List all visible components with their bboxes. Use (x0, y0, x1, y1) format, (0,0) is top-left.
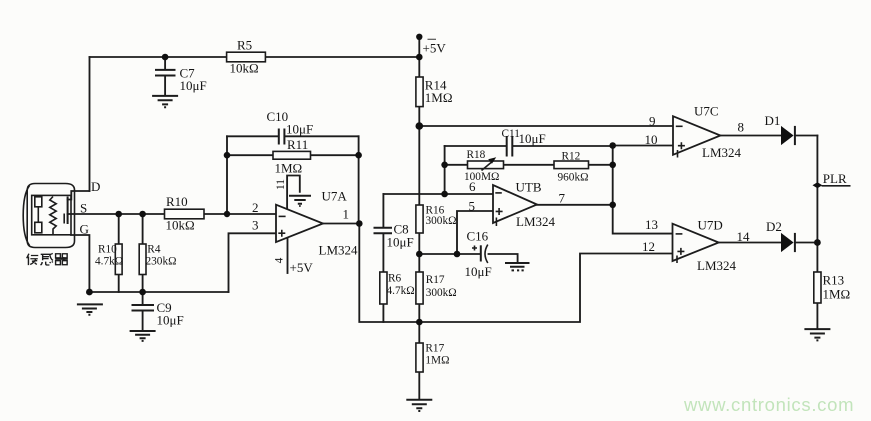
resistor R12 960k body (554, 161, 589, 169)
wire: U7A pin 11 lead to ground (287, 176, 300, 211)
svg-text:10μF: 10μF (519, 131, 546, 146)
wire: R4 leads (142, 214, 144, 292)
wire: central vertical R14-R16-R17-R17 chain (418, 57, 420, 400)
svg-text:D: D (91, 179, 100, 194)
pin label 13 (645, 217, 658, 232)
svg-text:10kΩ: 10kΩ (230, 61, 259, 76)
svg-text:R11: R11 (287, 137, 308, 152)
svg-text:C11: C11 (502, 128, 520, 140)
ground under C7 (152, 96, 178, 107)
label UTB (516, 180, 556, 230)
resistor R10 4.7k vertical body (115, 244, 122, 275)
diode D2 (781, 233, 795, 252)
ground right of C16 (505, 263, 530, 270)
pin label 4 rotated (274, 257, 286, 263)
pin label 11 rotated (275, 179, 287, 190)
svg-text:300kΩ: 300kΩ (426, 215, 457, 227)
node junction U7A output (356, 220, 363, 227)
svg-text:D1: D1 (765, 113, 781, 128)
ground under sensor node (77, 304, 103, 314)
svg-text:1: 1 (343, 207, 350, 222)
ground under R17 1M (406, 400, 432, 411)
pin label 1 (343, 207, 350, 222)
node junction R4 / C9 (139, 289, 146, 296)
svg-text:300kΩ: 300kΩ (426, 287, 457, 299)
sensor FET channel and gate (64, 197, 67, 225)
capacitor C8 plates (374, 228, 393, 233)
svg-text:www.cntronics.com: www.cntronics.com (683, 394, 854, 415)
svg-text:R17: R17 (425, 343, 444, 355)
wire: U7A output drop to bottom bus and up to U7D pin 12 (359, 224, 672, 323)
node junction R11 right (355, 152, 362, 159)
svg-text:R6: R6 (388, 273, 402, 285)
pin label 9 (649, 114, 656, 129)
capacitor C16 plates polarized (472, 245, 488, 263)
ground at U7A pin 11 (289, 196, 311, 206)
op-amp U7A triangle (276, 205, 323, 242)
svg-text:C10: C10 (267, 109, 289, 124)
resistor R4 230k body (139, 244, 146, 275)
svg-text:PLR: PLR (823, 171, 847, 186)
svg-text:UTB: UTB (516, 180, 542, 195)
svg-text:LM324: LM324 (516, 214, 556, 229)
label R10 10k horizontal (166, 194, 195, 233)
wire: C10 feedback wire (227, 135, 359, 137)
svg-text:R18: R18 (467, 149, 486, 161)
svg-text:R10: R10 (98, 244, 117, 256)
svg-text:R17: R17 (426, 274, 445, 286)
label PLR (823, 171, 847, 186)
wire: sensor S lead to U7A pin 2 (68, 213, 276, 215)
wire: U7D output to D2 (719, 242, 818, 244)
resistor R18 100M body with trimmer arrow (468, 157, 504, 170)
node junction C7 on +5V rail (162, 54, 169, 61)
wire: R11 feedback wire (227, 154, 359, 156)
label sensor S (80, 201, 87, 216)
label R16 (426, 205, 457, 228)
label R11 (275, 137, 309, 176)
wire: R18 R12 wire (445, 164, 613, 166)
node junction +5V rail / R14 (416, 54, 423, 61)
capacitor C7 plates (155, 70, 176, 76)
svg-text:100MΩ: 100MΩ (464, 171, 499, 183)
svg-text:C16: C16 (467, 229, 489, 244)
wire: sensor G lead down to ground node (71, 235, 89, 292)
node junction R11 left (224, 152, 231, 159)
label U7A (319, 189, 359, 258)
node junction pin5 riser / C16 (454, 251, 461, 258)
resistor R5 10k body (227, 52, 266, 62)
pin label 6 (469, 179, 476, 194)
pin label 14 (737, 229, 751, 244)
svg-text:13: 13 (645, 217, 658, 232)
resistor R6 4.7k body (380, 272, 387, 304)
svg-text:4.7kΩ: 4.7kΩ (387, 285, 415, 297)
wire: U7A pin 3 riser from bottom-left node (229, 233, 277, 292)
diode D1 (781, 126, 795, 145)
svg-text:2: 2 (252, 200, 259, 215)
pin label 7 (559, 191, 566, 206)
node PLR underline (822, 185, 851, 187)
svg-text:10μF: 10μF (387, 235, 414, 250)
svg-text:960kΩ: 960kΩ (558, 172, 589, 184)
node junction pin6 wire / riser (441, 191, 448, 198)
wire: sensor D lead to left vertical (68, 191, 90, 200)
svg-text:R12: R12 (562, 151, 581, 163)
node junction pin7 / right rail (609, 202, 616, 209)
wire: C7 leads (164, 57, 166, 96)
label U7C (694, 104, 742, 161)
wire: U7C pin 10 wire (613, 145, 673, 147)
svg-text:1MΩ: 1MΩ (425, 355, 449, 367)
svg-text:U7A: U7A (322, 189, 348, 204)
node PLR junction dot (813, 182, 823, 188)
wire: top +5V rail from left vertical to +5V node (90, 56, 420, 58)
wire: +5V stub (418, 37, 420, 57)
svg-text:S: S (80, 201, 87, 216)
svg-text:9: 9 (649, 114, 656, 129)
+5V power tick at top (428, 38, 437, 40)
svg-text:10μF: 10μF (286, 122, 313, 137)
svg-text:10μF: 10μF (157, 313, 184, 328)
wire: UTB pin 6 wire (383, 193, 493, 195)
wire: U7C pin 9 long wire (419, 125, 673, 127)
sensor inner window (32, 195, 71, 234)
svg-text:7: 7 (559, 191, 566, 206)
sensor gate resistor zigzag (50, 197, 56, 235)
node junction R18 wire / riser (441, 162, 448, 169)
label C16 (465, 229, 492, 280)
label C7 (180, 66, 207, 94)
wire: U7C output to D1 and PLR rail (720, 135, 817, 137)
resistor R10 10k horizontal body (165, 209, 205, 219)
wire: feedback left rail at U7A pin 2 (226, 136, 228, 214)
label C8 (387, 222, 414, 250)
svg-text:1MΩ: 1MΩ (275, 161, 303, 176)
label sensor G (80, 222, 89, 237)
wire: bottom-left node joining R10 R4 C9 (89, 291, 228, 293)
sensor element electrodes (35, 197, 42, 233)
label D1 (765, 113, 781, 128)
label R10 4.7k (95, 244, 123, 268)
svg-text:U7C: U7C (694, 104, 719, 119)
svg-text:10μF: 10μF (180, 78, 207, 93)
op-amp U7C triangle (673, 116, 720, 157)
svg-text:5: 5 (469, 199, 476, 214)
wire: far right rail D1 to R13 (816, 136, 818, 329)
wire: branch riser to C11/R18 (444, 146, 446, 194)
node junction ground bus left (86, 289, 93, 296)
label C10 (267, 109, 314, 137)
svg-text:10μF: 10μF (465, 264, 492, 279)
svg-text:LM324: LM324 (319, 243, 359, 258)
svg-text:U7D: U7D (698, 218, 723, 233)
node junction D2 / R13 (814, 239, 821, 246)
node +5V terminal dot (416, 34, 422, 40)
svg-text:R4: R4 (147, 244, 161, 256)
svg-text:230kΩ: 230kΩ (146, 256, 177, 268)
svg-text:11: 11 (275, 179, 287, 190)
pin label 5 (469, 199, 476, 214)
svg-text:14: 14 (737, 229, 751, 244)
node junction R14 / pin9 wire (416, 122, 424, 130)
capacitor C9 plates (132, 305, 155, 311)
wire: C8-R6 series chain (382, 194, 384, 322)
resistor R16 300k body (416, 205, 423, 233)
resistor R17 300k body (416, 272, 423, 304)
label R6 (387, 273, 415, 298)
node junction C11 wire / pin10 (609, 142, 616, 149)
node junction S wire / R4 (139, 211, 146, 218)
label R13 (823, 273, 851, 302)
wire: feedback right rail to U7A output (358, 136, 360, 223)
wire: U7A output to node (323, 223, 359, 225)
pin label 3 (252, 218, 259, 233)
sensor can outline (23, 184, 74, 248)
label U7D (697, 218, 737, 274)
svg-text:R5: R5 (237, 38, 252, 53)
capacitor C11 plates (507, 136, 513, 157)
ground under R13 (804, 329, 830, 340)
pin label 2 (252, 200, 259, 215)
svg-text:10: 10 (645, 132, 658, 147)
svg-text:+5V: +5V (423, 41, 447, 56)
wire: C9 leads (142, 292, 144, 331)
label R17 1M (425, 343, 449, 367)
label R17 300k (426, 274, 457, 299)
svg-text:R13: R13 (823, 273, 845, 288)
wire: UTB pin 5 riser (457, 211, 493, 254)
wire: C11 wire (445, 145, 613, 147)
resistor R11 1M body (273, 151, 311, 159)
svg-text:12: 12 (642, 239, 655, 254)
wire: right rail down to U7D pin 13 (613, 146, 673, 234)
label sensor chinese 传感器 (27, 253, 68, 265)
node junction central vertical / pin5 wire (416, 251, 423, 258)
op-amp U7D triangle (673, 224, 719, 263)
label C9 (157, 300, 184, 328)
svg-text:LM324: LM324 (697, 258, 737, 273)
label R18 (464, 149, 499, 183)
label C11 (502, 128, 546, 146)
node junction pin2 / feedback rail (224, 211, 230, 217)
svg-text:1MΩ: 1MΩ (425, 90, 453, 105)
svg-text:10kΩ: 10kΩ (166, 218, 195, 233)
svg-text:LM324: LM324 (702, 145, 742, 160)
resistor R13 1M body (814, 272, 821, 303)
svg-text:3: 3 (252, 218, 259, 233)
label D2 (766, 219, 782, 234)
wire: UTB pin 7 output (537, 204, 613, 206)
svg-text:G: G (80, 222, 89, 237)
ground under C9 (130, 331, 156, 341)
svg-text:1MΩ: 1MΩ (823, 287, 851, 302)
resistor R14 1M body (416, 77, 423, 107)
label sensor D (91, 179, 100, 194)
node junction S wire / R10 4.7k (115, 211, 122, 218)
pin label 8 (738, 120, 745, 135)
label R14 (425, 78, 453, 106)
wire: pin 5 bottom wire with C16 to ground (419, 254, 517, 263)
watermark www.cntronics.com (683, 394, 854, 415)
svg-text:4: 4 (274, 257, 286, 263)
label R12 (558, 151, 589, 184)
svg-text:8: 8 (738, 120, 745, 135)
label R5 (230, 38, 259, 76)
label +5V at U7A pin4 (290, 260, 314, 275)
label +5V top (423, 41, 447, 56)
wire: R10 4.7k leads (118, 214, 120, 292)
node junction bottom bus / R17 1M (416, 319, 423, 326)
svg-text:R10: R10 (166, 194, 188, 209)
svg-text:D2: D2 (766, 219, 782, 234)
label R4 230k (146, 244, 177, 268)
node junction R12 / right rail (609, 162, 616, 169)
wire: U7A pin 4 lead (287, 238, 289, 273)
pin label 10 (645, 132, 658, 147)
wire: left vertical from top rail down to sensor D lead (89, 57, 91, 191)
op-amp UTB triangle (493, 185, 537, 226)
svg-text:4.7kΩ: 4.7kΩ (95, 256, 123, 268)
svg-text:+5V: +5V (290, 260, 314, 275)
capacitor C10 plates (279, 129, 285, 145)
pin label 12 (642, 239, 655, 254)
resistor R17 1M body (416, 343, 423, 372)
